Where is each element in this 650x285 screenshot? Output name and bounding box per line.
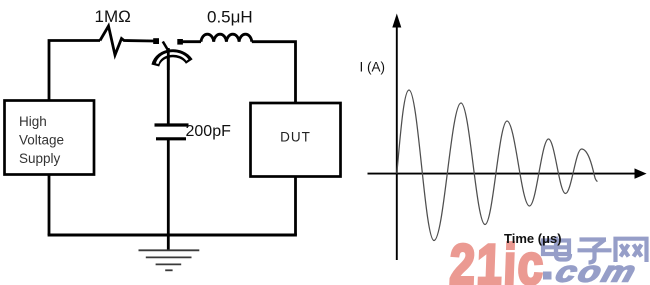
capacitor C 200pF bottom plate (156, 137, 186, 140)
switch node dot left (153, 38, 159, 44)
svg-text:1MΩ: 1MΩ (95, 7, 131, 26)
wire top-left horizontal (49, 41, 100, 102)
switch blade diagonal (163, 42, 171, 55)
resistor R 1M (100, 26, 154, 55)
watermark .com (543, 272, 552, 280)
wire over arc (167, 49, 170, 70)
svg-text:DUT: DUT (280, 130, 311, 145)
wire DUT bottom (294, 177, 297, 235)
capacitor branch wire lower (167, 139, 170, 251)
svg-text:High: High (19, 114, 47, 129)
capacitor branch wire upper (167, 48, 170, 124)
ground symbol (139, 250, 200, 270)
watermark 21ic (449, 232, 546, 285)
inductor L 0.5uH (201, 34, 252, 42)
capacitor C 200pF top plate (155, 123, 189, 126)
svg-text:Time (μs): Time (μs) (504, 231, 562, 246)
watermark 网 (616, 239, 647, 262)
switch node dot right (177, 39, 183, 45)
svg-text:Supply: Supply (19, 151, 61, 166)
y axis (396, 25, 398, 260)
switch arc inner white (157, 53, 187, 63)
watermark 子 (578, 240, 612, 263)
damped sine curve (397, 90, 598, 241)
wire bottom bus (48, 234, 297, 237)
y axis arrowhead (392, 14, 401, 28)
svg-text:200pF: 200pF (186, 123, 232, 140)
svg-text:com: com (552, 255, 642, 285)
watermark 电 (543, 237, 570, 260)
wire switch to inductor (183, 40, 202, 43)
box High Voltage Supply (5, 101, 95, 175)
svg-text:Voltage: Voltage (19, 133, 64, 148)
svg-text:I (A): I (A) (360, 60, 386, 75)
svg-text:0.5μH: 0.5μH (207, 8, 253, 27)
wire HV bottom (48, 175, 51, 235)
box DUT (251, 103, 341, 177)
wire inductor to DUT (252, 42, 296, 102)
x axis arrowhead (635, 168, 647, 178)
switch arc outer (155, 53, 189, 65)
x axis (368, 173, 637, 175)
